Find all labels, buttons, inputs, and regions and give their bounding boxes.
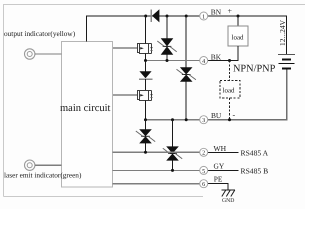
svg-text:BK: BK — [211, 53, 222, 62]
BK rail (gray) — [146, 60, 201, 62]
TVS Z4 (trunk, BU to WH) — [136, 120, 155, 153]
PE rail (gray) — [113, 183, 201, 185]
svg-text:BU: BU — [211, 111, 222, 120]
node 4 — [200, 53, 222, 65]
border frame (decorative) — [4, 5, 306, 197]
wire: node 1 to battery + — [207, 16, 286, 54]
junction dot BU/dashed load — [228, 118, 231, 121]
svg-text:load: load — [232, 33, 245, 41]
junction dot BK/dashed load — [228, 59, 231, 62]
diode D2 (trunk, between Q1 and Q2) — [139, 61, 152, 90]
WH rail (gray) — [113, 151, 201, 153]
junction dot BU/TVS-c — [171, 118, 174, 121]
junction dot WH/trunk — [144, 151, 147, 154]
wire: laser indicator to main circuit — [35, 164, 62, 166]
battery 12...24V — [278, 19, 295, 119]
svg-text:laser emit indicator(green): laser emit indicator(green) — [4, 171, 82, 180]
wire: trunk BN to Q1 drain — [145, 16, 147, 44]
junction dot BN/trunk — [144, 15, 147, 18]
svg-text:PE: PE — [214, 174, 223, 183]
svg-text:12...24V: 12...24V — [278, 19, 287, 46]
svg-text:2: 2 — [202, 150, 205, 157]
node 1 — [200, 8, 222, 21]
GY rail (gray) — [113, 169, 201, 171]
svg-text:output indicator(yellow): output indicator(yellow) — [4, 29, 76, 38]
TVS Z2 (BN to BU, crosses BK) — [177, 16, 196, 120]
TVS Z1 (BN to BK) — [157, 16, 176, 61]
node 5 — [200, 161, 225, 174]
svg-text:load: load — [223, 87, 236, 95]
svg-text:5: 5 — [202, 169, 205, 175]
junction dot load top — [237, 15, 240, 18]
node 3 — [200, 111, 222, 124]
svg-text:GY: GY — [214, 161, 225, 170]
svg-text:4: 4 — [202, 58, 205, 65]
junction dot BN/TVS-a — [166, 15, 169, 18]
node 2 — [200, 144, 227, 157]
MOSFET Q2 — [113, 90, 153, 101]
MOSFET Q1 — [113, 43, 153, 54]
svg-text:BN: BN — [211, 8, 222, 17]
junction dot BU/TVS-b — [185, 118, 188, 121]
wire: node 3 to battery - (gray) — [207, 70, 287, 120]
wire: main circuit top to BN rail — [87, 16, 146, 42]
junction dot BU/trunk — [144, 118, 147, 121]
junction dot BK/TVS-a — [166, 59, 169, 62]
node 6 — [200, 174, 223, 188]
wire: node 5 to RS485 B — [207, 169, 238, 171]
junction dot BN/TVS-b — [185, 15, 188, 18]
svg-text:6: 6 — [202, 181, 205, 188]
load (dashed box, NPN/PNP option) — [220, 61, 240, 120]
wire: output indicator to main circuit — [35, 53, 62, 55]
wire: node 2 to RS485 A — [207, 151, 238, 153]
wire: BN rail (diode anode side to node 1) — [146, 15, 201, 17]
svg-text:NPN/PNP: NPN/PNP — [233, 64, 276, 75]
wire: Q2 source to BU rail — [145, 101, 147, 120]
svg-text:WH: WH — [214, 144, 227, 153]
TVS Z3 (BU to GY, crosses WH) — [163, 120, 182, 171]
svg-text:RS485 B: RS485 B — [241, 166, 269, 175]
diode D1 (reverse polarity protection) — [151, 9, 159, 22]
svg-text:GND: GND — [222, 198, 234, 204]
junction dot GY/TVS-c — [171, 169, 174, 172]
wire: node 4 to load bottom (black) — [207, 46, 238, 61]
svg-text:3: 3 — [202, 117, 205, 124]
wire: node 6 to GND — [207, 184, 228, 190]
laser emit indicator LED (green) — [25, 160, 35, 170]
svg-text:RS485 A: RS485 A — [241, 148, 269, 157]
BU rail (gray) — [146, 119, 201, 121]
main circuit box U1 — [60, 42, 113, 188]
svg-text:main circuit: main circuit — [60, 103, 111, 114]
junction dot BK/trunk — [144, 59, 147, 62]
load (solid box) — [228, 16, 248, 61]
svg-text:-: - — [233, 111, 236, 120]
wire: Q1 source to BK rail — [145, 54, 147, 62]
svg-text:1: 1 — [202, 13, 205, 20]
svg-text:+: + — [228, 7, 233, 16]
ground — [222, 190, 236, 197]
output indicator LED (yellow) — [25, 49, 35, 59]
